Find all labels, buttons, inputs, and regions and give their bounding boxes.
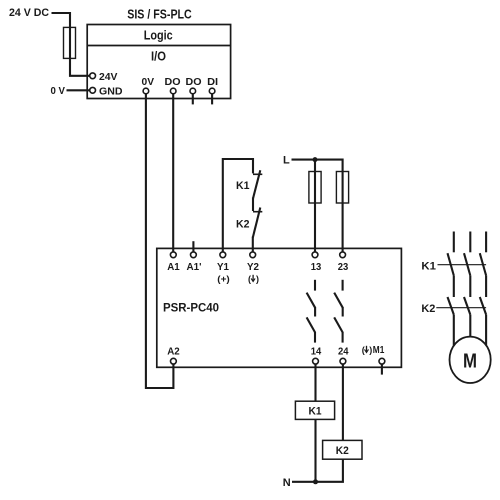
wire pole 3 mid xyxy=(485,276,487,297)
divider Logic section xyxy=(87,45,230,47)
svg-text:A2: A2 xyxy=(167,346,180,358)
contact K1 fixed foot xyxy=(253,173,262,175)
wire pole 1 mid xyxy=(453,276,455,297)
wire between K1 and K2 contacts xyxy=(252,198,254,212)
svg-text:Y2: Y2 xyxy=(247,261,259,273)
terminal 13 xyxy=(312,252,318,258)
internal contact 23-24 blade 1 xyxy=(334,293,343,308)
svg-text:14: 14 xyxy=(311,346,322,358)
internal contact 13-14 dash mid xyxy=(314,307,316,317)
terminal 24V xyxy=(90,73,96,79)
svg-text:0 V: 0 V xyxy=(51,85,66,97)
contactor K1 blade pole 2 xyxy=(464,253,470,276)
wire DO second stub xyxy=(192,94,194,105)
wire 24V DC feed xyxy=(52,13,90,76)
svg-text:(: ( xyxy=(248,274,251,284)
fuse F3 (23 branch) xyxy=(336,172,348,204)
motor M xyxy=(450,337,491,383)
svg-text:(+): (+) xyxy=(217,274,230,284)
box SIS / FS-PLC xyxy=(87,25,230,99)
wire 14 to K1 coil xyxy=(314,364,316,401)
svg-text:0V: 0V xyxy=(142,76,155,88)
wire pole 2 mid xyxy=(469,276,471,297)
svg-text:Logic: Logic xyxy=(144,28,173,42)
internal contact 13-14 dash top xyxy=(314,280,316,291)
wire pole 1 to motor xyxy=(453,315,455,346)
svg-text:24 V DC: 24 V DC xyxy=(9,7,49,19)
svg-text:A1: A1 xyxy=(167,261,180,273)
contact K2 fixed foot xyxy=(253,211,262,213)
svg-text:K2: K2 xyxy=(421,303,435,315)
wire 24 to K2 coil xyxy=(342,364,344,440)
terminal 23 xyxy=(340,252,346,258)
svg-text:N: N xyxy=(283,477,291,489)
svg-text:13: 13 xyxy=(311,261,322,273)
terminal Y1 xyxy=(220,252,226,258)
internal contact 23-24 dash mid xyxy=(342,307,344,317)
terminal GND xyxy=(90,87,96,93)
svg-text:): ) xyxy=(256,274,259,284)
wire phase 3 stub xyxy=(485,232,487,253)
svg-text:SIS / FS-PLC: SIS / FS-PLC xyxy=(127,6,192,21)
wire DO to A1 xyxy=(172,94,174,252)
terminal 14 xyxy=(313,358,319,364)
fuse F2 (13 branch) xyxy=(309,172,321,204)
contactor K1 blade pole 1 xyxy=(448,253,454,276)
contactor K2 blade pole 3 xyxy=(480,297,486,315)
terminal A1' xyxy=(191,252,197,258)
junction K1/N xyxy=(313,479,318,484)
internal contact 23-24 blade 2 xyxy=(334,317,343,332)
wire L supply xyxy=(292,160,343,252)
svg-text:DI: DI xyxy=(207,76,218,88)
wire 0V feed xyxy=(67,89,90,91)
svg-text:M: M xyxy=(463,349,477,372)
svg-text:23: 23 xyxy=(338,261,349,273)
wire phase 2 stub xyxy=(469,232,471,253)
svg-text:DO: DO xyxy=(165,76,181,88)
wire pole 2 to motor xyxy=(469,315,471,337)
wire 0V to A2 loop xyxy=(146,94,174,388)
internal contact 13-14 blade 1 xyxy=(307,293,316,308)
svg-text:GND: GND xyxy=(99,85,123,97)
svg-text:K2: K2 xyxy=(336,445,349,457)
fuse F1 (24V supply) xyxy=(64,27,76,58)
contact K1 blade xyxy=(253,170,260,198)
wire K2 contact to Y2 xyxy=(252,237,254,252)
svg-text:24: 24 xyxy=(338,346,349,358)
wire Y1 riser to K1 contact xyxy=(223,159,253,252)
svg-text:L: L xyxy=(283,155,290,167)
svg-text:K1: K1 xyxy=(236,180,250,192)
wire M1 stub xyxy=(381,364,383,375)
wire fuse branch to 13 xyxy=(314,160,316,252)
contactor K2 blade pole 2 xyxy=(464,297,470,315)
internal contact 23-24 dash bottom xyxy=(342,332,344,343)
svg-text:K1: K1 xyxy=(421,260,436,272)
internal contact 13-14 dash bottom xyxy=(314,332,316,343)
svg-text:K2: K2 xyxy=(236,219,250,231)
wire pole 3 to motor xyxy=(485,315,487,346)
terminal DI xyxy=(209,88,215,94)
wire phase 1 stub xyxy=(453,232,455,253)
contact K2 blade xyxy=(253,208,260,238)
terminal M1 xyxy=(379,358,385,364)
svg-text:Y1: Y1 xyxy=(217,261,229,273)
box PSR-PC40 xyxy=(157,248,402,367)
terminal A1 xyxy=(170,252,176,258)
coil K2 xyxy=(323,440,362,459)
wire K1 coil to N xyxy=(314,419,316,481)
svg-text:PSR-PC40: PSR-PC40 xyxy=(163,300,219,314)
terminal Y2 xyxy=(250,252,256,258)
wire A1' stub xyxy=(192,241,194,252)
contactor K1 link line xyxy=(438,264,487,266)
svg-text:M1: M1 xyxy=(373,344,385,356)
wire DI stub xyxy=(211,94,213,105)
internal contact 23-24 dash top xyxy=(342,280,344,291)
wire K2 coil to N corner xyxy=(292,459,343,482)
terminal DO second xyxy=(190,88,196,94)
terminal 0V xyxy=(143,88,149,94)
svg-text:24V: 24V xyxy=(99,71,118,83)
junction L/fuse xyxy=(313,157,318,162)
contactor K2 blade pole 1 xyxy=(448,297,454,315)
internal contact 13-14 blade 2 xyxy=(307,317,316,332)
svg-text:A1': A1' xyxy=(187,261,202,273)
coil K1 xyxy=(295,401,334,419)
contactor K2 link line xyxy=(436,307,486,309)
svg-text:K1: K1 xyxy=(309,406,322,418)
svg-text:DO: DO xyxy=(186,76,202,88)
terminal DO first xyxy=(170,88,176,94)
svg-text:I/O: I/O xyxy=(151,49,166,63)
terminal 24 xyxy=(340,358,346,364)
contactor K1 blade pole 3 xyxy=(480,253,486,276)
terminal A2 xyxy=(171,358,177,364)
